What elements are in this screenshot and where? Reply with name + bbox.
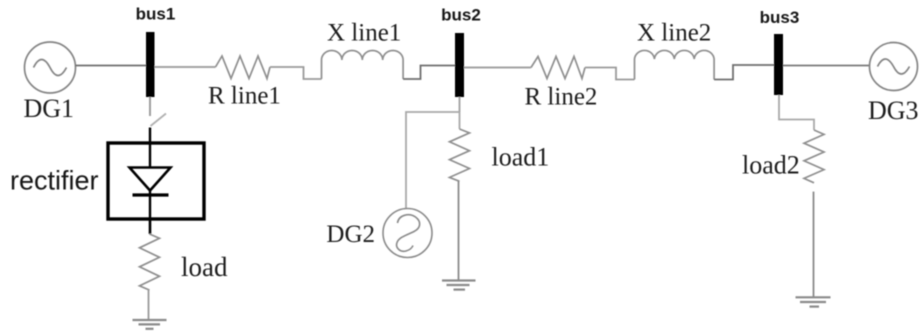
wire junction to DG2 branch	[406, 112, 460, 209]
resistor R line2	[531, 57, 585, 79]
switch blade	[151, 114, 167, 127]
inductor X line2	[635, 50, 715, 79]
svg-text:DG2: DG2	[326, 221, 375, 248]
svg-text:X line2: X line2	[637, 20, 711, 47]
wire R line2 to X line2 (step down)	[585, 68, 635, 80]
inductor X line1	[322, 51, 404, 79]
svg-text:DG1: DG1	[24, 94, 75, 123]
rectifier box	[108, 143, 204, 219]
generator DG2	[383, 209, 432, 258]
ground (load)	[133, 320, 167, 329]
wire bus3 down to load2	[779, 95, 814, 130]
resistor load	[140, 234, 160, 290]
svg-text:X line1: X line1	[327, 20, 401, 47]
wire junction to load1	[459, 112, 461, 129]
resistor load1	[450, 129, 470, 181]
resistor load2	[804, 130, 824, 183]
wire load2 to ground	[813, 192, 815, 297]
svg-text:bus2: bus2	[441, 6, 481, 25]
svg-text:DG3: DG3	[868, 96, 919, 125]
wire X line1 to bus2 (step up)	[403, 66, 455, 80]
wire bus3 to DG3	[783, 65, 870, 67]
bus bar bus1	[146, 32, 155, 97]
ground (load1)	[442, 281, 476, 290]
wire switch to rectifier	[149, 128, 151, 145]
wire R line1 to X line1 (step down)	[270, 67, 322, 79]
diode D1	[130, 168, 171, 220]
wire load to ground	[148, 290, 150, 320]
wire DG1 to bus1	[76, 65, 147, 67]
wire bus2 to R line2	[464, 67, 531, 69]
bus bar bus3	[774, 34, 783, 95]
wire through rectifier (anode lead)	[149, 144, 151, 168]
svg-text:load2: load2	[742, 151, 800, 180]
wire bus2 down to junction	[459, 97, 461, 112]
svg-text:R line2: R line2	[525, 84, 598, 111]
svg-text:bus3: bus3	[760, 8, 800, 27]
generator DG3	[870, 43, 918, 91]
svg-text:R line1: R line1	[208, 83, 281, 110]
bus bar bus2	[455, 33, 464, 97]
svg-text:load: load	[181, 252, 228, 282]
wire rectifier to load	[149, 219, 152, 234]
svg-text:load1: load1	[492, 143, 550, 172]
generator DG1	[25, 42, 76, 93]
wire bus1 to R line1	[155, 66, 216, 68]
wire load1 to ground	[458, 181, 460, 280]
wire bus1 down to switch	[149, 97, 151, 116]
ground (load2)	[796, 297, 831, 306]
svg-text:rectifier: rectifier	[10, 166, 99, 196]
wire X line2 to bus3 (step up)	[714, 65, 774, 80]
resistor R line1	[216, 56, 271, 79]
svg-text:bus1: bus1	[136, 5, 176, 24]
